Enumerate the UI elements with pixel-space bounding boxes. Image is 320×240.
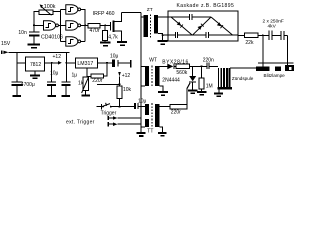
wire cascade top rail xyxy=(171,16,211,18)
wire WT secondary bottom to ground xyxy=(159,86,163,91)
wire switch node to trigger cap xyxy=(120,106,134,108)
wire pot right to feedback node xyxy=(53,9,61,41)
svg-text:Blitzlampe: Blitzlampe xyxy=(264,73,286,78)
ground below thyristor xyxy=(188,89,198,94)
capacitor C1 10n xyxy=(18,30,39,43)
ground below C1 xyxy=(28,44,41,49)
ground below 1M xyxy=(197,91,207,96)
capacitor cascade bottom 2 xyxy=(206,32,209,38)
ground TT secondary xyxy=(158,132,167,137)
flash tube Blitzlampe xyxy=(256,63,294,78)
wire ext trigger 1 xyxy=(117,117,141,119)
schmitt buffer U1B xyxy=(66,5,81,14)
svg-text:Kaskade z.B. BG1895: Kaskade z.B. BG1895 xyxy=(177,3,235,9)
wire drain to ZT xyxy=(122,11,141,13)
wire cascade bottom rail xyxy=(168,34,238,36)
svg-text:1μ: 1μ xyxy=(72,73,78,79)
wire TT secondary bottom to ground xyxy=(159,127,162,132)
capacitor C9 220n xyxy=(203,57,218,68)
capacitor C3 10u xyxy=(47,63,58,97)
capacitor C8 10u trigger xyxy=(134,99,147,110)
terminal ext trigger 2 xyxy=(108,122,118,126)
wire gate diagonal xyxy=(187,83,190,89)
voltage regulator U3 LM317 xyxy=(75,58,97,68)
diode D2 xyxy=(198,23,204,29)
svg-text:TT: TT xyxy=(147,129,153,135)
wire LM317 out xyxy=(97,62,112,64)
svg-text:CD40106: CD40106 xyxy=(41,34,63,40)
capacitor C7 10u output xyxy=(110,53,131,67)
svg-text:7812: 7812 xyxy=(30,62,41,68)
transformer WT xyxy=(145,58,159,87)
wire WT primary stubs xyxy=(141,66,145,85)
thyristor Q2 2N4444 xyxy=(162,66,196,89)
wire buffer output bus xyxy=(81,9,86,41)
wire left drop to lamp xyxy=(262,35,264,66)
wire R2 to gate xyxy=(100,24,110,26)
wire cascade diag2 xyxy=(192,17,211,35)
input terminal 15V xyxy=(1,51,8,54)
resistor R5 220r xyxy=(91,74,104,84)
wire 220r to out xyxy=(104,63,108,76)
wire to gate resistor xyxy=(84,24,86,26)
wire TT secondary top to 220r xyxy=(159,106,169,108)
switch S1 Trigger xyxy=(97,103,120,117)
svg-text:Zündspule: Zündspule xyxy=(232,76,254,81)
svg-text:WT: WT xyxy=(149,58,157,64)
wire ZT secondary top to cascade xyxy=(158,16,171,18)
svg-text:470r: 470r xyxy=(90,28,100,34)
transformer ZT xyxy=(144,7,158,38)
supply arrow +12 down xyxy=(118,72,130,79)
svg-text:560k: 560k xyxy=(176,70,187,76)
svg-text:Trigger: Trigger xyxy=(101,110,117,116)
svg-text:4700μ: 4700μ xyxy=(21,82,35,88)
wire 15V rail xyxy=(8,51,69,53)
svg-text:220r: 220r xyxy=(171,110,181,116)
capacitor cascade bottom 1 xyxy=(175,32,178,38)
cascade box xyxy=(168,11,238,41)
schmitt buffer U1D xyxy=(66,37,81,46)
svg-text:1M: 1M xyxy=(206,84,213,90)
svg-text:2N4444: 2N4444 xyxy=(162,78,180,84)
svg-text:10n: 10n xyxy=(18,30,27,36)
svg-text:22k: 22k xyxy=(245,40,254,46)
wire ZT primary top stub xyxy=(141,16,144,18)
resistor R4 22k xyxy=(244,33,258,46)
svg-text:10k: 10k xyxy=(123,87,132,93)
svg-text:4kV: 4kV xyxy=(268,24,277,30)
svg-text:2 x 250nF: 2 x 250nF xyxy=(263,18,284,24)
wire 10k to switch node xyxy=(119,99,121,107)
wire diode to 560k xyxy=(175,65,176,67)
capacitor cascade top xyxy=(189,14,192,20)
svg-text:ext. Trigger: ext. Trigger xyxy=(66,119,95,125)
svg-text:10μ: 10μ xyxy=(138,99,147,105)
wire caps to right drop xyxy=(284,35,287,66)
svg-text:15V: 15V xyxy=(1,41,11,47)
ground below Q1 source xyxy=(117,41,127,46)
wire 560k to 220n xyxy=(190,65,207,67)
wire tap to 7812 and 4700u xyxy=(17,52,26,81)
wire ext trigger 2 xyxy=(117,123,141,125)
wire cascade output xyxy=(238,34,244,36)
schmitt buffer U1C xyxy=(66,21,81,30)
svg-text:ZT: ZT xyxy=(147,7,153,13)
svg-text:+12: +12 xyxy=(53,54,62,60)
potentiometer P1 100k xyxy=(39,4,56,15)
wire TT primary bottom stub xyxy=(141,126,145,128)
ground below 7812 xyxy=(30,71,40,79)
wire 220r to gate xyxy=(186,89,188,107)
resistor R7 220r xyxy=(170,104,187,115)
svg-text:10μ: 10μ xyxy=(110,53,119,59)
voltage regulator U2 7812 xyxy=(26,57,45,71)
svg-text:220n: 220n xyxy=(203,57,214,63)
resistor R3 4,7k xyxy=(103,25,119,41)
wire pot left xyxy=(34,11,39,31)
schmitt inverter U1A CD40106 xyxy=(44,21,61,30)
transistor Q1 IRFP460 xyxy=(93,11,122,41)
capacitor C6 250nF xyxy=(280,31,284,40)
wire 15V corner to LM317 xyxy=(66,52,75,81)
potentiometer P2 1k xyxy=(78,76,90,96)
svg-text:220r: 220r xyxy=(92,78,102,84)
wire trigger electrode xyxy=(230,67,256,69)
ground below R3 xyxy=(100,42,111,47)
svg-text:+12: +12 xyxy=(122,73,131,79)
capacitor C4 1u xyxy=(61,73,77,97)
wire long vertical bus xyxy=(140,12,142,132)
svg-text:4,7k: 4,7k xyxy=(108,35,118,41)
ignition coil Zuendspule xyxy=(218,68,254,89)
wire cascade diag1 xyxy=(171,17,192,35)
diode D4 BYX28/16 xyxy=(162,60,189,70)
diode D3 xyxy=(217,22,223,28)
resistor R8 560k xyxy=(176,64,190,76)
capacitor C5 250nF xyxy=(268,31,272,41)
wire oscillator input xyxy=(34,24,44,26)
wire ZT secondary bottom xyxy=(158,34,163,40)
wire WT secondary top xyxy=(159,65,167,67)
resistor R9 1M xyxy=(199,65,212,90)
ground at bottom of vertical bus xyxy=(137,132,146,137)
svg-text:10μ: 10μ xyxy=(50,71,59,77)
ground below WT secondary xyxy=(158,91,168,96)
wire 7812 output xyxy=(45,62,58,64)
node junction dot oscillator input xyxy=(33,24,35,26)
junction dot gate node xyxy=(104,24,106,26)
svg-text:100k: 100k xyxy=(44,4,56,10)
wire ZT ground tap to cascade bottom rail xyxy=(163,34,168,36)
supply arrow +12 xyxy=(53,54,62,65)
wire cascade diag3 xyxy=(211,17,233,35)
wire adj rail to 10k node xyxy=(97,83,120,85)
wire +12 to 10k xyxy=(119,77,121,87)
wire buffer input stubs xyxy=(61,9,66,41)
resistor R2 470r xyxy=(88,24,100,35)
svg-text:LM317: LM317 xyxy=(77,61,93,67)
svg-text:IRFP 460: IRFP 460 xyxy=(93,11,115,17)
transformer TT xyxy=(145,103,160,134)
ground below coil xyxy=(214,89,223,97)
wire LM317 adj xyxy=(87,68,91,77)
wire 22k to caps xyxy=(258,34,268,36)
ground below ZT secondary xyxy=(158,40,168,45)
resistor R6 10k xyxy=(117,86,131,99)
diode D1 xyxy=(177,22,183,28)
wire between caps xyxy=(272,34,280,36)
terminal ext trigger 1 xyxy=(108,116,118,120)
capacitor C2 4700u xyxy=(11,81,35,97)
